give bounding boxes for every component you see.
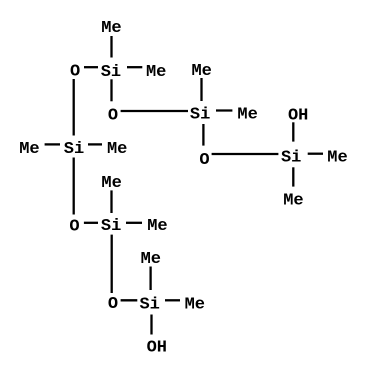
svg-text:Si: Si	[101, 217, 121, 236]
svg-text:O: O	[69, 217, 79, 236]
wire bond Si6-OH vertical	[150, 315, 152, 335]
wire bond Si6-Me	[165, 299, 180, 301]
wire bond Si4-Me	[88, 143, 102, 145]
wire bond Si2-Me	[216, 109, 232, 111]
wire bond O5-Si5	[84, 222, 98, 224]
svg-text:Me: Me	[107, 140, 127, 159]
svg-text:Me: Me	[101, 19, 121, 38]
wire bond Si2-O3 vertical	[202, 124, 204, 146]
svg-text:Me: Me	[191, 62, 211, 81]
wire bond O3-Si3	[212, 153, 279, 155]
svg-text:Si: Si	[101, 63, 121, 82]
svg-text:OH: OH	[288, 106, 308, 125]
svg-text:O: O	[108, 106, 118, 125]
svg-text:OH: OH	[147, 338, 167, 357]
wire bond Si3-Me	[308, 153, 323, 155]
svg-text:Si: Si	[139, 295, 159, 314]
wire bond O6-Si6	[121, 299, 138, 301]
svg-text:O: O	[108, 295, 118, 314]
svg-text:Me: Me	[101, 174, 121, 193]
svg-text:Me: Me	[185, 295, 205, 314]
wire bond Si1-O2 vertical	[110, 79, 112, 101]
wire bond OH-Si3 vertical	[292, 122, 294, 141]
wire bond Me-Si1 vertical	[110, 36, 112, 58]
wire bond Me-Si2 vertical	[200, 78, 202, 101]
wire bond Si5-O6 vertical	[111, 235, 113, 293]
wire bond O1-Si1	[84, 66, 98, 68]
svg-text:Me: Me	[237, 106, 257, 125]
wire bond Me-Si4	[45, 143, 60, 145]
svg-text:Me: Me	[327, 149, 347, 168]
svg-text:Me: Me	[19, 140, 39, 159]
wire bond Me-Si6 vertical	[149, 267, 151, 291]
wire bond Me-Si5 vertical	[110, 190, 112, 213]
svg-text:Me: Me	[146, 63, 166, 82]
wire bond Si5-Me	[126, 222, 142, 224]
svg-text:Si: Si	[281, 149, 301, 168]
svg-text:Me: Me	[283, 192, 303, 211]
svg-text:Me: Me	[141, 250, 161, 269]
svg-text:Si: Si	[190, 106, 210, 125]
wire bond O1-Si4 vertical	[73, 79, 75, 136]
wire bond O2-Si2	[121, 110, 188, 112]
svg-text:Me: Me	[147, 217, 167, 236]
svg-text:O: O	[199, 151, 209, 170]
svg-text:O: O	[70, 62, 80, 81]
wire bond Si1-Me	[127, 66, 142, 68]
svg-text:Si: Si	[64, 140, 84, 159]
wire bond Si3-Me vertical	[292, 167, 294, 186]
wire bond Si4-O5 vertical	[73, 158, 75, 215]
